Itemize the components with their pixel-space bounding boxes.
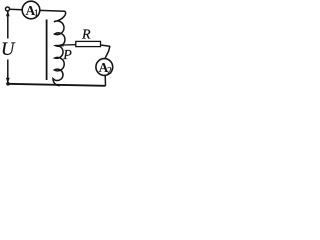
svg-text:R: R xyxy=(81,28,91,43)
bottom wire xyxy=(8,84,106,86)
ammeter A1 xyxy=(22,1,40,19)
wire A1 to coil xyxy=(40,9,66,12)
bottom corner dot xyxy=(6,82,10,86)
coil P (autotransformer winding) xyxy=(53,11,66,85)
U arrow shaft upper xyxy=(7,12,9,39)
wire resistor to corner xyxy=(101,45,110,46)
resistor R box xyxy=(76,41,101,46)
svg-text:P: P xyxy=(62,48,72,63)
ammeter A2 xyxy=(96,59,113,76)
wiper arrow xyxy=(57,44,76,47)
U arrowhead up xyxy=(6,11,10,17)
wire node to A1 xyxy=(10,8,23,11)
svg-text:U: U xyxy=(1,40,16,60)
svg-text:2: 2 xyxy=(107,65,112,75)
wire A2 down to bottom corner xyxy=(104,75,106,86)
U arrowhead down xyxy=(6,78,10,84)
core line xyxy=(46,20,48,81)
U arrow shaft lower xyxy=(7,60,9,84)
svg-text:1: 1 xyxy=(34,8,39,18)
wire corner down to A2 xyxy=(105,46,110,59)
terminal node top-left xyxy=(6,7,10,11)
